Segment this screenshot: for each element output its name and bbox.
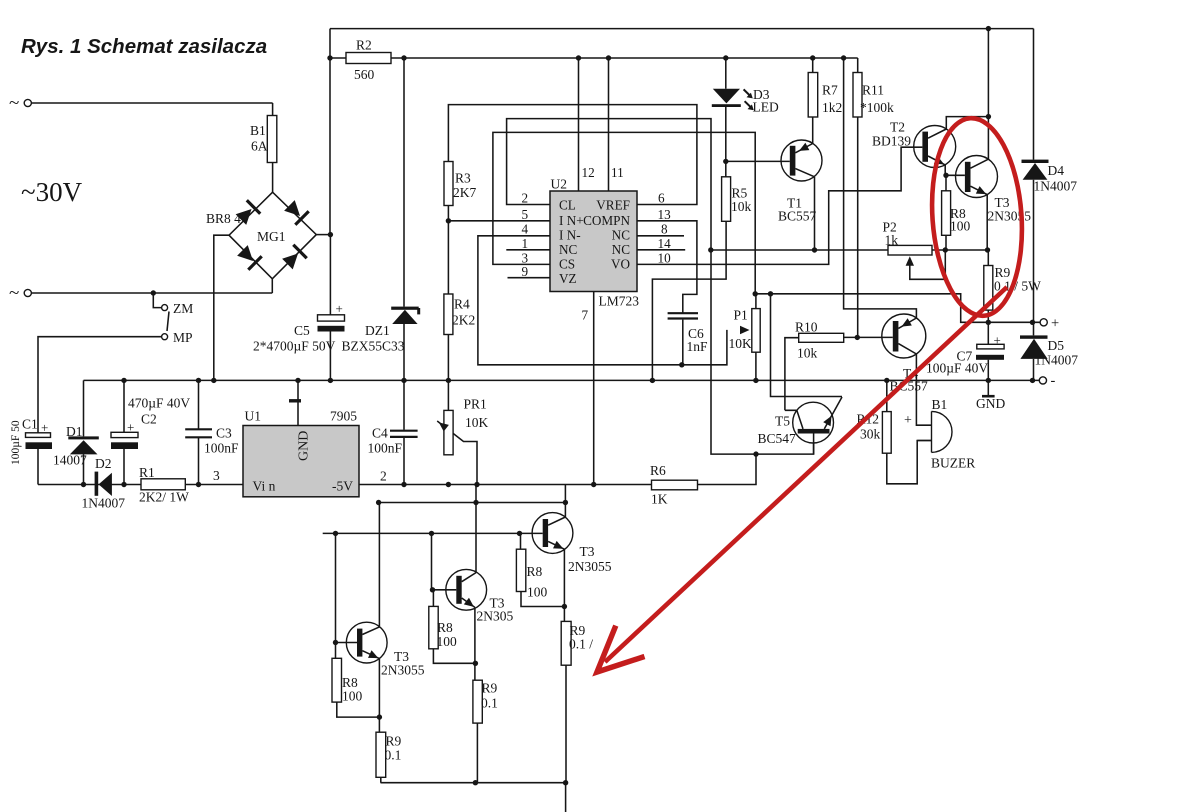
svg-text:10k: 10k [797, 346, 818, 361]
svg-text:MG1: MG1 [257, 229, 286, 244]
svg-text:R1: R1 [139, 465, 155, 480]
svg-text:VO: VO [611, 257, 630, 272]
svg-text:BZX55C33: BZX55C33 [342, 339, 405, 354]
svg-text:ZM: ZM [173, 301, 193, 316]
svg-text:9: 9 [522, 264, 529, 279]
svg-text:8: 8 [661, 222, 668, 237]
svg-text:R6: R6 [650, 463, 666, 478]
svg-text:R8: R8 [527, 564, 543, 579]
svg-text:LED: LED [753, 100, 779, 115]
svg-text:14007: 14007 [53, 453, 87, 468]
svg-text:2: 2 [380, 469, 387, 484]
svg-text:2N3055: 2N3055 [568, 559, 612, 574]
svg-text:VREF: VREF [596, 198, 630, 213]
svg-text:~: ~ [9, 283, 19, 304]
svg-text:100µF 40V: 100µF 40V [926, 361, 988, 376]
svg-text:BC547: BC547 [758, 431, 797, 446]
svg-text:0.1: 0.1 [481, 696, 498, 711]
svg-text:10K: 10K [729, 336, 753, 351]
svg-text:-: - [1051, 373, 1056, 389]
svg-text:100µF 50: 100µF 50 [10, 420, 22, 465]
svg-text:3: 3 [213, 468, 220, 483]
svg-text:R4: R4 [454, 297, 470, 312]
svg-text:GND: GND [297, 431, 312, 461]
svg-text:4: 4 [522, 222, 529, 237]
svg-text:1N4007: 1N4007 [1035, 353, 1079, 368]
svg-text:14: 14 [658, 236, 672, 251]
svg-text:C3: C3 [216, 426, 232, 441]
svg-text:2K2: 2K2 [452, 313, 475, 328]
svg-text:C4: C4 [372, 426, 388, 441]
svg-text:C1: C1 [22, 417, 38, 432]
svg-text:VZ: VZ [559, 271, 577, 286]
svg-text:470µF 40V: 470µF 40V [128, 396, 190, 411]
svg-text:U1: U1 [245, 409, 262, 424]
svg-text:P1: P1 [734, 308, 748, 323]
svg-text:R11: R11 [862, 83, 884, 98]
svg-text:100: 100 [527, 585, 548, 600]
svg-text:+: + [904, 413, 912, 428]
svg-text:1k2: 1k2 [822, 100, 842, 115]
svg-text:+: + [41, 420, 48, 435]
svg-text:B1: B1 [932, 397, 948, 412]
svg-text:1nF: 1nF [687, 339, 709, 354]
svg-text:I N+: I N+ [559, 213, 584, 228]
svg-text:T5: T5 [775, 414, 790, 429]
svg-text:1k: 1k [885, 233, 899, 248]
svg-text:D4: D4 [1048, 163, 1065, 178]
svg-text:T3: T3 [580, 544, 595, 559]
svg-text:7: 7 [582, 308, 589, 323]
svg-text:BD139: BD139 [872, 134, 911, 149]
svg-text:+: + [994, 333, 1001, 348]
svg-text:~30V: ~30V [21, 177, 83, 207]
svg-text:1N4007: 1N4007 [82, 496, 126, 511]
svg-text:0.1: 0.1 [385, 748, 402, 763]
svg-text:11: 11 [611, 165, 624, 180]
svg-text:R9: R9 [482, 681, 498, 696]
svg-text:100: 100 [342, 689, 363, 704]
svg-text:6: 6 [658, 191, 665, 206]
svg-text:2K2/ 1W: 2K2/ 1W [139, 490, 189, 505]
svg-text:6A: 6A [251, 139, 268, 154]
svg-text:CL: CL [559, 198, 576, 213]
svg-text:D5: D5 [1048, 338, 1065, 353]
svg-text:BC557: BC557 [778, 209, 817, 224]
svg-text:12: 12 [582, 165, 595, 180]
svg-text:2N3055: 2N3055 [988, 209, 1032, 224]
svg-text:BUZER: BUZER [931, 456, 975, 471]
svg-text:2*4700µF 50V: 2*4700µF 50V [253, 339, 336, 354]
svg-text:10K: 10K [465, 415, 489, 430]
svg-text:R10: R10 [795, 320, 818, 335]
svg-text:NC: NC [559, 242, 578, 257]
svg-text:100nF: 100nF [368, 441, 403, 456]
svg-text:C2: C2 [141, 412, 157, 427]
svg-text:R8: R8 [437, 620, 453, 635]
svg-text:PR1: PR1 [464, 397, 487, 412]
svg-text:DZ1: DZ1 [365, 323, 390, 338]
svg-text:R3: R3 [455, 171, 471, 186]
svg-text:GND: GND [976, 396, 1005, 411]
svg-text:+: + [1051, 316, 1059, 332]
svg-text:10k: 10k [731, 199, 752, 214]
svg-text:U2: U2 [551, 177, 568, 192]
svg-text:*100k: *100k [860, 100, 894, 115]
svg-text:MP: MP [173, 330, 193, 345]
svg-text:30k: 30k [860, 427, 881, 442]
svg-text:+: + [127, 420, 134, 435]
svg-text:~: ~ [9, 93, 19, 114]
svg-text:5: 5 [522, 207, 529, 222]
svg-text:2: 2 [522, 191, 529, 206]
svg-text:D1: D1 [66, 424, 83, 439]
svg-text:T2: T2 [890, 120, 905, 135]
svg-text:1: 1 [522, 236, 529, 251]
svg-text:R9: R9 [386, 734, 402, 749]
svg-text:C5: C5 [294, 323, 310, 338]
svg-text:13: 13 [658, 207, 672, 222]
svg-text:I N-: I N- [559, 228, 581, 243]
svg-text:B1: B1 [250, 123, 266, 138]
svg-text:100: 100 [950, 219, 971, 234]
svg-text:R2: R2 [356, 38, 372, 53]
svg-text:-5V: -5V [332, 479, 353, 494]
svg-text:2K7: 2K7 [453, 185, 476, 200]
svg-text:LM723: LM723 [599, 294, 640, 309]
svg-text:1K: 1K [651, 492, 668, 507]
svg-text:0.1 /: 0.1 / [569, 637, 593, 652]
svg-text:CS: CS [559, 257, 575, 272]
svg-text:+: + [336, 301, 343, 316]
svg-text:2N3055: 2N3055 [381, 663, 425, 678]
svg-text:COMPN: COMPN [583, 213, 630, 228]
svg-text:Rys. 1 Schemat zasilacza: Rys. 1 Schemat zasilacza [21, 35, 267, 58]
svg-text:BR8 4: BR8 4 [206, 211, 241, 226]
svg-text:7905: 7905 [330, 409, 357, 424]
svg-text:2N305: 2N305 [477, 609, 514, 624]
svg-text:NC: NC [612, 242, 631, 257]
svg-text:560: 560 [354, 67, 375, 82]
svg-text:100nF: 100nF [204, 441, 239, 456]
svg-text:R7: R7 [822, 83, 838, 98]
svg-text:D2: D2 [95, 456, 112, 471]
svg-text:10: 10 [658, 251, 672, 266]
svg-text:NC: NC [612, 228, 631, 243]
svg-text:Vi n: Vi n [253, 479, 276, 494]
svg-text:1N4007: 1N4007 [1034, 179, 1078, 194]
svg-text:100: 100 [437, 634, 458, 649]
